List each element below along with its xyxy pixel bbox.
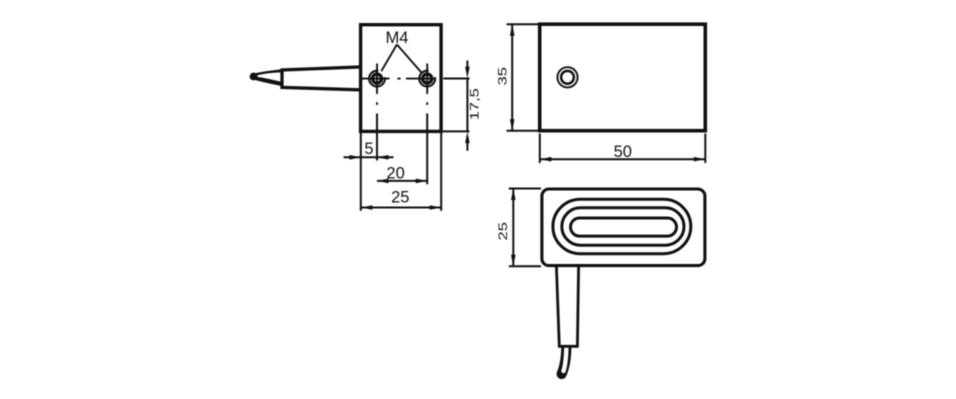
bottom view: cable stub	[562, 346, 567, 374]
dimension 35 arrows	[510, 24, 515, 36]
dimension 25 (bottom view) arrows	[511, 189, 516, 201]
extension lines, front view bottom	[361, 114, 441, 211]
centerline dots below holes	[377, 102, 427, 105]
side view: sensing face circle	[557, 67, 577, 87]
svg-text:35: 35	[496, 67, 510, 85]
hole B centerlines	[406, 64, 435, 95]
dimension 20	[377, 180, 427, 182]
svg-text:50: 50	[614, 143, 632, 161]
svg-text:25: 25	[391, 189, 409, 207]
dimension 50 extension lines	[540, 134, 706, 164]
dimension 17,5 extension lines	[443, 61, 470, 151]
dimension 35 extension lines	[507, 24, 540, 131]
M4 leader lines	[381, 45, 421, 73]
hole A centerlines	[362, 64, 401, 95]
side view: body rectangle 50x35	[540, 24, 706, 131]
dimension 17,5 arrows	[465, 67, 470, 79]
dimension 25 (bottom view) extension lines	[509, 189, 541, 267]
coil stadium outer	[553, 199, 691, 253]
coil stadium middle	[562, 208, 684, 245]
svg-text:5: 5	[364, 140, 373, 158]
svg-text:25: 25	[497, 222, 511, 240]
bottom view: body rounded rectangle	[542, 189, 705, 266]
front view: body rectangle 25x35	[361, 25, 442, 132]
coil stadium inner	[571, 218, 677, 236]
dimension 25	[361, 207, 441, 209]
svg-text:17,5: 17,5	[468, 88, 482, 120]
svg-text:M4: M4	[386, 29, 409, 47]
front view: cable gland trapezoid	[282, 67, 362, 90]
svg-text:20: 20	[386, 164, 404, 182]
hole A (M4) thread arc + circle	[369, 71, 385, 87]
dimension 5	[344, 156, 394, 158]
front view: cable stub	[250, 69, 284, 87]
dimension 50 arrows	[540, 157, 552, 162]
bottom view: cable gland	[556, 266, 578, 346]
hole B (M4) thread arc + circle	[419, 71, 435, 87]
